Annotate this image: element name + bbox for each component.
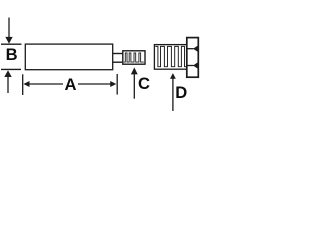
svg-text:D: D xyxy=(175,83,187,102)
head upper groove line xyxy=(188,48,194,50)
dimension A right extension line xyxy=(116,74,118,95)
head upper groove wedge xyxy=(193,46,198,52)
thumbscrew head xyxy=(187,38,199,78)
svg-text:B: B xyxy=(6,45,18,64)
dimension B top arrow (down) xyxy=(5,18,12,44)
dimension A left extension line xyxy=(22,74,24,95)
dimension B top extension line xyxy=(1,43,22,45)
thumbscrew thread square-wave pattern xyxy=(155,46,186,66)
threaded tip box xyxy=(123,51,145,64)
neck between cylinder and threaded tip xyxy=(113,54,123,63)
dimension B bottom extension line xyxy=(1,68,21,70)
main cylinder body xyxy=(25,44,112,70)
dimension A line with arrows xyxy=(23,81,116,87)
dimension D arrow (up) xyxy=(170,73,176,111)
threaded tip square-wave thread pattern xyxy=(124,53,144,62)
dimension C arrow (up) xyxy=(131,67,138,98)
svg-text:A: A xyxy=(65,75,77,94)
dimension B bottom arrow (up) xyxy=(4,70,11,93)
thumbscrew threaded shaft xyxy=(154,45,186,70)
svg-text:C: C xyxy=(138,74,150,93)
head lower groove line xyxy=(188,65,194,67)
head lower groove wedge xyxy=(193,62,198,68)
